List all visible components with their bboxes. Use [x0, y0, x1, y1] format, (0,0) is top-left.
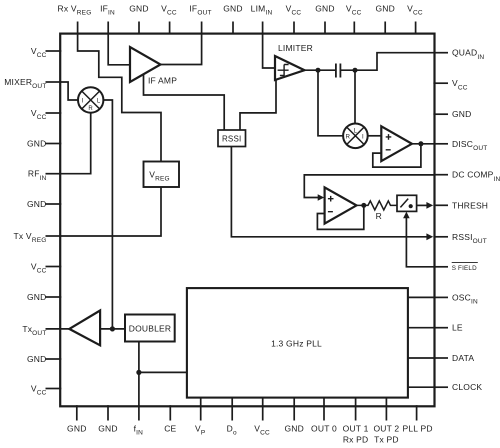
wire MIXEROUT to mixer 1 I port [61, 82, 79, 100]
op-amp IF AMP triangle [130, 47, 177, 85]
wire Tx VREG to VREG box bottom [61, 187, 162, 236]
svg-text:GND: GND [27, 354, 47, 364]
mixer 1 (front-end mixer) [78, 87, 103, 112]
IC body outline [60, 34, 434, 407]
svg-text:GND: GND [223, 4, 243, 14]
wire doubler to fIN pin and PLL input [139, 342, 187, 407]
pin right 8: S FIELD (active low, overbar) [433, 263, 477, 272]
resistor R [357, 201, 398, 221]
pin top 10: VCC [346, 4, 362, 35]
wire RFIN to mixer 1 R port [61, 113, 91, 174]
pin right 10: LE [433, 323, 463, 333]
transistor-buffer Tx output (left-pointing triangle) [69, 311, 100, 346]
wire IF amp output to IFOUT pin [161, 33, 202, 65]
pin right 2: VCC [433, 78, 467, 91]
svg-text:GND: GND [98, 424, 118, 434]
wire DC COMPIN to thresh comparator + input [304, 175, 434, 198]
pin left 1: VCC [31, 46, 61, 59]
svg-text:L: L [97, 98, 101, 104]
svg-text:GND: GND [315, 4, 335, 14]
wire PLL bottom to GND pin [293, 398, 295, 406]
pin right 11: DATA [433, 353, 474, 363]
svg-text:LIMITER: LIMITER [278, 43, 313, 53]
wire PLL to DATA [408, 357, 434, 359]
wire disc op-amp output to DISCOUT [412, 143, 434, 145]
pin left 6: GND [27, 199, 61, 209]
svg-text:R: R [88, 106, 93, 112]
pin right 1: QUADIN [433, 48, 484, 61]
svg-text:R: R [346, 135, 351, 141]
svg-text:GND: GND [67, 424, 87, 434]
pin right 5: DC COMPIN [433, 170, 500, 183]
wire Rx VREG to VREG box input [78, 33, 161, 162]
pin left 3: VCC [31, 108, 61, 121]
svg-text:Rx PD: Rx PD [343, 435, 369, 445]
pin top 4: VCC [161, 4, 177, 35]
svg-text:OUT 0: OUT 0 [311, 424, 337, 434]
svg-text:I: I [82, 98, 84, 104]
switch box (S-field mute switch) [397, 195, 417, 211]
pin bottom 11: OUT 2 / Tx PD [373, 405, 399, 444]
pin top 6: GND [223, 4, 243, 35]
pin bottom 2: GND [98, 405, 118, 433]
pin top 12: VCC [407, 4, 423, 35]
pin bottom 7: VCC [254, 405, 270, 437]
pin top 5: IFOUT [189, 4, 211, 35]
svg-text:THRESH: THRESH [452, 200, 488, 210]
1.3 GHz PLL box [187, 288, 408, 398]
pin right 6: THRESH [433, 200, 488, 210]
svg-text:DOUBLER: DOUBLER [129, 324, 172, 334]
wire disc op-amp feedback loop [373, 144, 421, 167]
svg-text:S FIELD: S FIELD [452, 265, 477, 272]
pin top 1: Rx VREG [58, 4, 92, 35]
pin top 11: GND [375, 4, 395, 35]
svg-text:PLL PD: PLL PD [403, 424, 433, 434]
pin bottom 8: GND [284, 405, 304, 433]
pin bottom 10: OUT 1 / Rx PD [343, 405, 369, 444]
pin left 4: GND [27, 139, 61, 149]
svg-text:GND: GND [452, 109, 472, 119]
wire limiter tap to RSSI box [240, 80, 276, 130]
pin bottom 9: OUT 0 [311, 405, 337, 433]
svg-text:GND: GND [27, 292, 47, 302]
pin left 2: MIXEROUT [4, 77, 61, 90]
svg-text:GND: GND [27, 139, 47, 149]
node fIN junction [136, 370, 141, 375]
arrow into thresh comparator + input [318, 194, 325, 201]
svg-text:1.3 GHz PLL: 1.3 GHz PLL [271, 339, 322, 349]
wire PLL to OSCIN [408, 296, 434, 298]
pin left 11: GND [27, 354, 61, 364]
wire capacitor to QUADIN and quad mixer L input [340, 53, 434, 124]
wire PLL bottom to Do pin [231, 398, 233, 406]
svg-text:CLOCK: CLOCK [452, 382, 482, 392]
pin right 4: DISCOUT [433, 139, 487, 152]
wire RSSI box to RSSIOUT pin with arrow [231, 147, 427, 237]
node Tx buffer / doubler junction [110, 326, 115, 331]
svg-text:IF AMP: IF AMP [148, 75, 177, 85]
pin bottom 12: PLL PD [403, 405, 433, 433]
wire PLL to CLOCK [408, 386, 434, 388]
limiter triangle with hysteresis symbol [275, 43, 313, 80]
pin left 8: VCC [31, 262, 61, 275]
pin top 2: IFIN [100, 4, 115, 35]
pin top 3: GND [129, 4, 149, 35]
wire thresh comparator feedback loop [317, 205, 363, 229]
pin bottom 1: GND [67, 405, 87, 433]
svg-text:OUT 2: OUT 2 [373, 424, 399, 434]
pin left 7: Tx VREG [14, 231, 62, 244]
VREG regulator box [144, 162, 180, 188]
pin bottom 3: fIN [134, 405, 144, 437]
svg-text:DATA: DATA [452, 353, 474, 363]
RSSI detector box [218, 130, 246, 147]
pin top 7: LIMIN [251, 4, 273, 35]
pin bottom 4: CE [164, 405, 176, 433]
wire mixer 2 I port to disc op-amp input [368, 135, 382, 137]
DOUBLER box [125, 315, 175, 342]
wire PLL to LE [408, 327, 434, 329]
svg-text:R: R [376, 211, 382, 221]
svg-text:CE: CE [164, 424, 176, 434]
capacitor (quad coupling) [336, 64, 341, 78]
pin bottom 5: VP [195, 405, 205, 437]
node disc output junction [418, 141, 423, 146]
mixer 2 (quadrature detector) [343, 124, 368, 149]
pin top 9: GND [315, 4, 335, 35]
wire mixer 1 L port to Tx buffer junction (LO line) [103, 100, 112, 329]
pin left 12: VCC [31, 384, 61, 397]
svg-text:GND: GND [284, 424, 304, 434]
wire buffer input junction to DOUBLER [100, 328, 125, 330]
pin left 5: RFIN [28, 169, 61, 182]
wire IF amp tap to RSSI box [144, 75, 225, 131]
svg-text:I: I [362, 135, 364, 141]
pin left 10: TxOUT [22, 324, 69, 337]
wire S FIELD control to switch box with up arrow [406, 218, 434, 267]
svg-text:GND: GND [129, 4, 149, 14]
pin right 7: RSSIOUT [433, 232, 487, 245]
wire PLL bottom to OUT 0 pin [323, 398, 325, 406]
pin right 12: CLOCK [433, 382, 482, 392]
pin right 3: GND [433, 109, 471, 119]
node limiter output junction [316, 68, 321, 73]
svg-text:LE: LE [452, 323, 463, 333]
pin bottom 6: Do [227, 405, 237, 437]
wire limiter output node to quad mixer R input [305, 70, 344, 136]
svg-text:OUT 1: OUT 1 [343, 424, 369, 434]
svg-text:GND: GND [375, 4, 395, 14]
wire LIMIN to limiter input [263, 33, 275, 68]
wire IFIN to IF amp input [108, 33, 130, 65]
node thresh output junction [361, 203, 366, 208]
svg-text:Tx PD: Tx PD [374, 435, 399, 445]
svg-text:RSSI: RSSI [222, 134, 241, 143]
wire PLL bottom to VP pin [200, 398, 202, 406]
node quad tank junction [353, 68, 358, 73]
pin left 9: GND [27, 292, 61, 302]
pin top 8: VCC [286, 4, 302, 35]
svg-text:GND: GND [27, 199, 47, 209]
op-amp disc amplifier [381, 126, 412, 161]
pin right 9: OSCIN [433, 292, 478, 305]
op-amp thresh comparator [325, 187, 357, 223]
svg-text:L: L [354, 129, 358, 135]
wire PLL bottom to OUT 2 pin [385, 398, 387, 406]
wire PLL bottom to OUT 1 pin [355, 398, 357, 406]
wire switch box to THRESH pin with arrow [417, 204, 427, 206]
wire PLL bottom to VCC pin [262, 398, 264, 406]
